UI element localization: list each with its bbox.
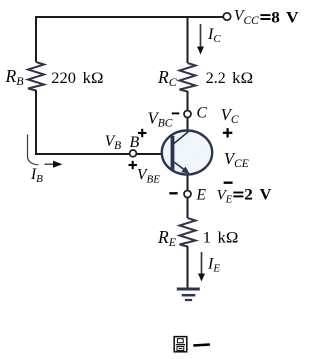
wire RE to ground bbox=[187, 246, 189, 289]
wire left vertical lower bbox=[35, 90, 37, 154]
svg-text:VBE: VBE bbox=[137, 166, 160, 185]
svg-text:kΩ: kΩ bbox=[232, 70, 253, 87]
svg-text:VBC: VBC bbox=[148, 109, 173, 130]
wire node C to transistor bbox=[187, 117, 189, 133]
minus VBC bbox=[172, 112, 180, 114]
current arrow IC bbox=[197, 24, 204, 55]
svg-text:kΩ: kΩ bbox=[83, 70, 104, 87]
svg-text:RE: RE bbox=[157, 227, 177, 249]
svg-text:kΩ: kΩ bbox=[218, 230, 239, 247]
wire left vertical upper bbox=[35, 16, 37, 62]
plus VBC at B bbox=[138, 129, 146, 137]
svg-text:B: B bbox=[130, 134, 140, 151]
svg-text:VB: VB bbox=[105, 133, 122, 152]
node E bbox=[184, 191, 191, 198]
transistor base bar bbox=[171, 136, 175, 170]
svg-text:VCC: VCC bbox=[234, 8, 259, 27]
wire top horizontal bbox=[35, 16, 224, 18]
svg-text:RB: RB bbox=[5, 66, 25, 88]
ground bbox=[177, 289, 200, 300]
transistor collector line bbox=[174, 132, 189, 144]
svg-text:IE: IE bbox=[207, 256, 220, 275]
wire transistor to node E bbox=[187, 173, 189, 191]
svg-text:IC: IC bbox=[207, 26, 221, 45]
transistor emitter arrowhead bbox=[181, 167, 189, 174]
minus VCE bbox=[224, 182, 233, 184]
transistor Q1 body bbox=[162, 131, 212, 175]
svg-text:220: 220 bbox=[51, 70, 76, 87]
svg-text:VC: VC bbox=[221, 105, 239, 126]
transistor emitter line bbox=[174, 162, 187, 171]
node B bbox=[130, 150, 137, 157]
svg-text:V: V bbox=[286, 9, 299, 26]
svg-text:RC: RC bbox=[157, 67, 178, 89]
wire RC to node C bbox=[187, 91, 189, 111]
svg-text:C: C bbox=[197, 105, 208, 122]
wire base horizontal bbox=[35, 153, 172, 155]
resistor RB bbox=[28, 62, 44, 91]
wire node E to RE bbox=[187, 197, 189, 218]
current arrow IB bbox=[45, 161, 63, 168]
plus VBE at B bbox=[129, 161, 137, 169]
node C bbox=[184, 111, 191, 118]
svg-text:2: 2 bbox=[244, 187, 253, 204]
svg-text:8: 8 bbox=[271, 9, 280, 26]
plus VCE bbox=[223, 128, 232, 137]
svg-text:1: 1 bbox=[203, 230, 211, 247]
caption figure one glyph tu bbox=[174, 337, 187, 352]
svg-text:VCE: VCE bbox=[224, 149, 249, 170]
caption figure one glyph yi bbox=[193, 343, 210, 346]
svg-text:2.2: 2.2 bbox=[206, 70, 226, 87]
current arrow IB hook bbox=[28, 135, 39, 165]
svg-text:E: E bbox=[196, 186, 207, 203]
current arrow IE bbox=[198, 252, 205, 282]
equals sign VE bbox=[233, 193, 243, 197]
wire right vertical upper bbox=[187, 16, 189, 63]
minus VBE at E bbox=[169, 192, 177, 194]
svg-text:VE: VE bbox=[217, 187, 233, 205]
svg-text:V: V bbox=[260, 187, 272, 204]
equals sign VCC bbox=[260, 15, 270, 19]
resistor RC bbox=[180, 63, 196, 92]
svg-text:IB: IB bbox=[30, 166, 43, 185]
terminal VCC bbox=[223, 13, 230, 20]
resistor RE bbox=[180, 218, 196, 247]
